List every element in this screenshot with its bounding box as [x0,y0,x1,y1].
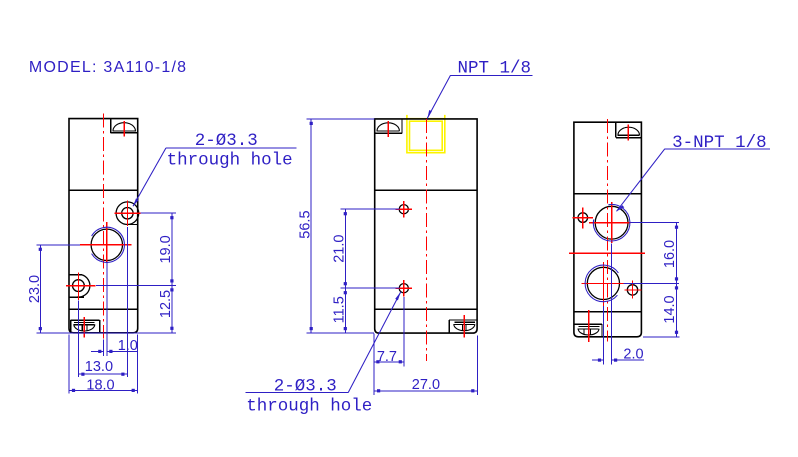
svg-text:7.7: 7.7 [377,349,397,365]
svg-text:12.5: 12.5 [158,290,174,318]
svg-text:2-Ø3.3: 2-Ø3.3 [195,131,258,151]
svg-text:16.0: 16.0 [662,240,678,268]
svg-text:23.0: 23.0 [27,275,43,303]
svg-text:13.0: 13.0 [85,359,113,375]
svg-text:19.0: 19.0 [158,235,174,263]
svg-text:2-Ø3.3: 2-Ø3.3 [274,376,337,396]
svg-text:2.0: 2.0 [623,346,643,362]
svg-text:14.0: 14.0 [662,295,678,323]
svg-text:NPT 1/8: NPT 1/8 [458,59,532,79]
svg-text:21.0: 21.0 [332,235,348,263]
svg-text:3-NPT 1/8: 3-NPT 1/8 [672,133,767,153]
svg-text:18.0: 18.0 [86,378,114,394]
svg-text:1.0: 1.0 [118,338,138,354]
svg-text:through hole: through hole [246,397,372,417]
svg-text:MODEL: 3A110-1/8: MODEL: 3A110-1/8 [29,59,187,76]
svg-text:56.5: 56.5 [297,210,313,238]
svg-text:through hole: through hole [167,150,293,170]
svg-text:27.0: 27.0 [412,377,440,393]
svg-text:11.5: 11.5 [332,296,348,323]
